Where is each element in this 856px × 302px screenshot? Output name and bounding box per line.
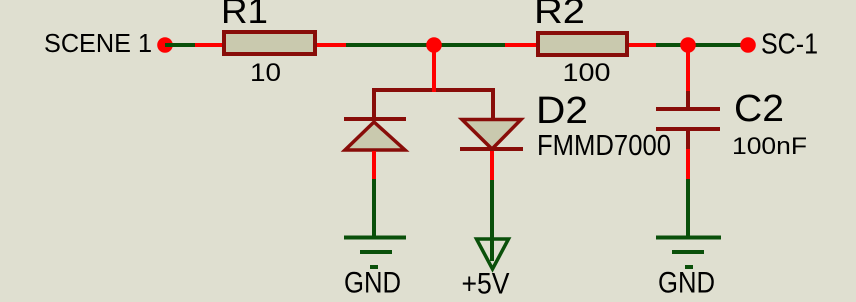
wire D2b to +5V (green) [490, 180, 494, 261]
terminal SC-1 [740, 37, 756, 53]
svg-text:SC-1: SC-1 [761, 29, 818, 61]
diode D2a cathode bar [344, 117, 406, 121]
wire D2a anode (red) [372, 151, 376, 179]
wire junction to R2 pin (red) [505, 43, 536, 47]
svg-text:100nF: 100nF [732, 133, 807, 160]
wire R1 right pin (red) [317, 43, 346, 47]
capacitor C2 top pin [686, 91, 690, 107]
svg-text:10: 10 [250, 59, 281, 87]
svg-text:R1: R1 [221, 0, 268, 31]
svg-text:GND: GND [344, 267, 401, 300]
wire R2 right pin (red) [629, 43, 656, 47]
wire C2 to ground (red) [686, 149, 690, 179]
svg-text:C2: C2 [734, 88, 784, 130]
svg-text:FMMD7000: FMMD7000 [537, 130, 671, 162]
wire C2 ground (green) [686, 179, 690, 236]
ground symbol left [344, 236, 406, 270]
svg-text:GND: GND [658, 267, 715, 300]
terminal SCENE1 [157, 37, 173, 53]
resistor R1 [222, 30, 317, 56]
wire R2 to junction B (green) [656, 43, 748, 47]
svg-text:100: 100 [563, 59, 611, 87]
junction node A [426, 37, 442, 53]
wire to R1 pin (red) [195, 43, 222, 47]
diode D2b cathode bar [460, 147, 523, 151]
ground symbol right [656, 236, 721, 270]
diode D2b body [462, 120, 521, 150]
wire D2b cathode (red) [490, 151, 494, 180]
svg-text:D2: D2 [536, 90, 588, 132]
diode D2 top rail [372, 88, 495, 121]
capacitor C2 plates [656, 107, 720, 131]
capacitor C2 bottom pin [686, 131, 690, 149]
wire R1 to junction (green) [346, 43, 505, 47]
diode D2a body [345, 122, 405, 150]
power +5V arrow [477, 239, 509, 269]
wire terminal to R1 (green) [165, 43, 195, 47]
svg-text:+5V: +5V [462, 268, 510, 301]
wire junction down (red) [432, 45, 436, 92]
wire D2a to ground (green) [372, 179, 376, 236]
wire junction B down (red) [686, 45, 690, 91]
svg-text:SCENE 1: SCENE 1 [44, 28, 152, 58]
junction node B [680, 37, 696, 53]
resistor R2 [536, 31, 629, 57]
svg-text:R2: R2 [534, 0, 585, 31]
